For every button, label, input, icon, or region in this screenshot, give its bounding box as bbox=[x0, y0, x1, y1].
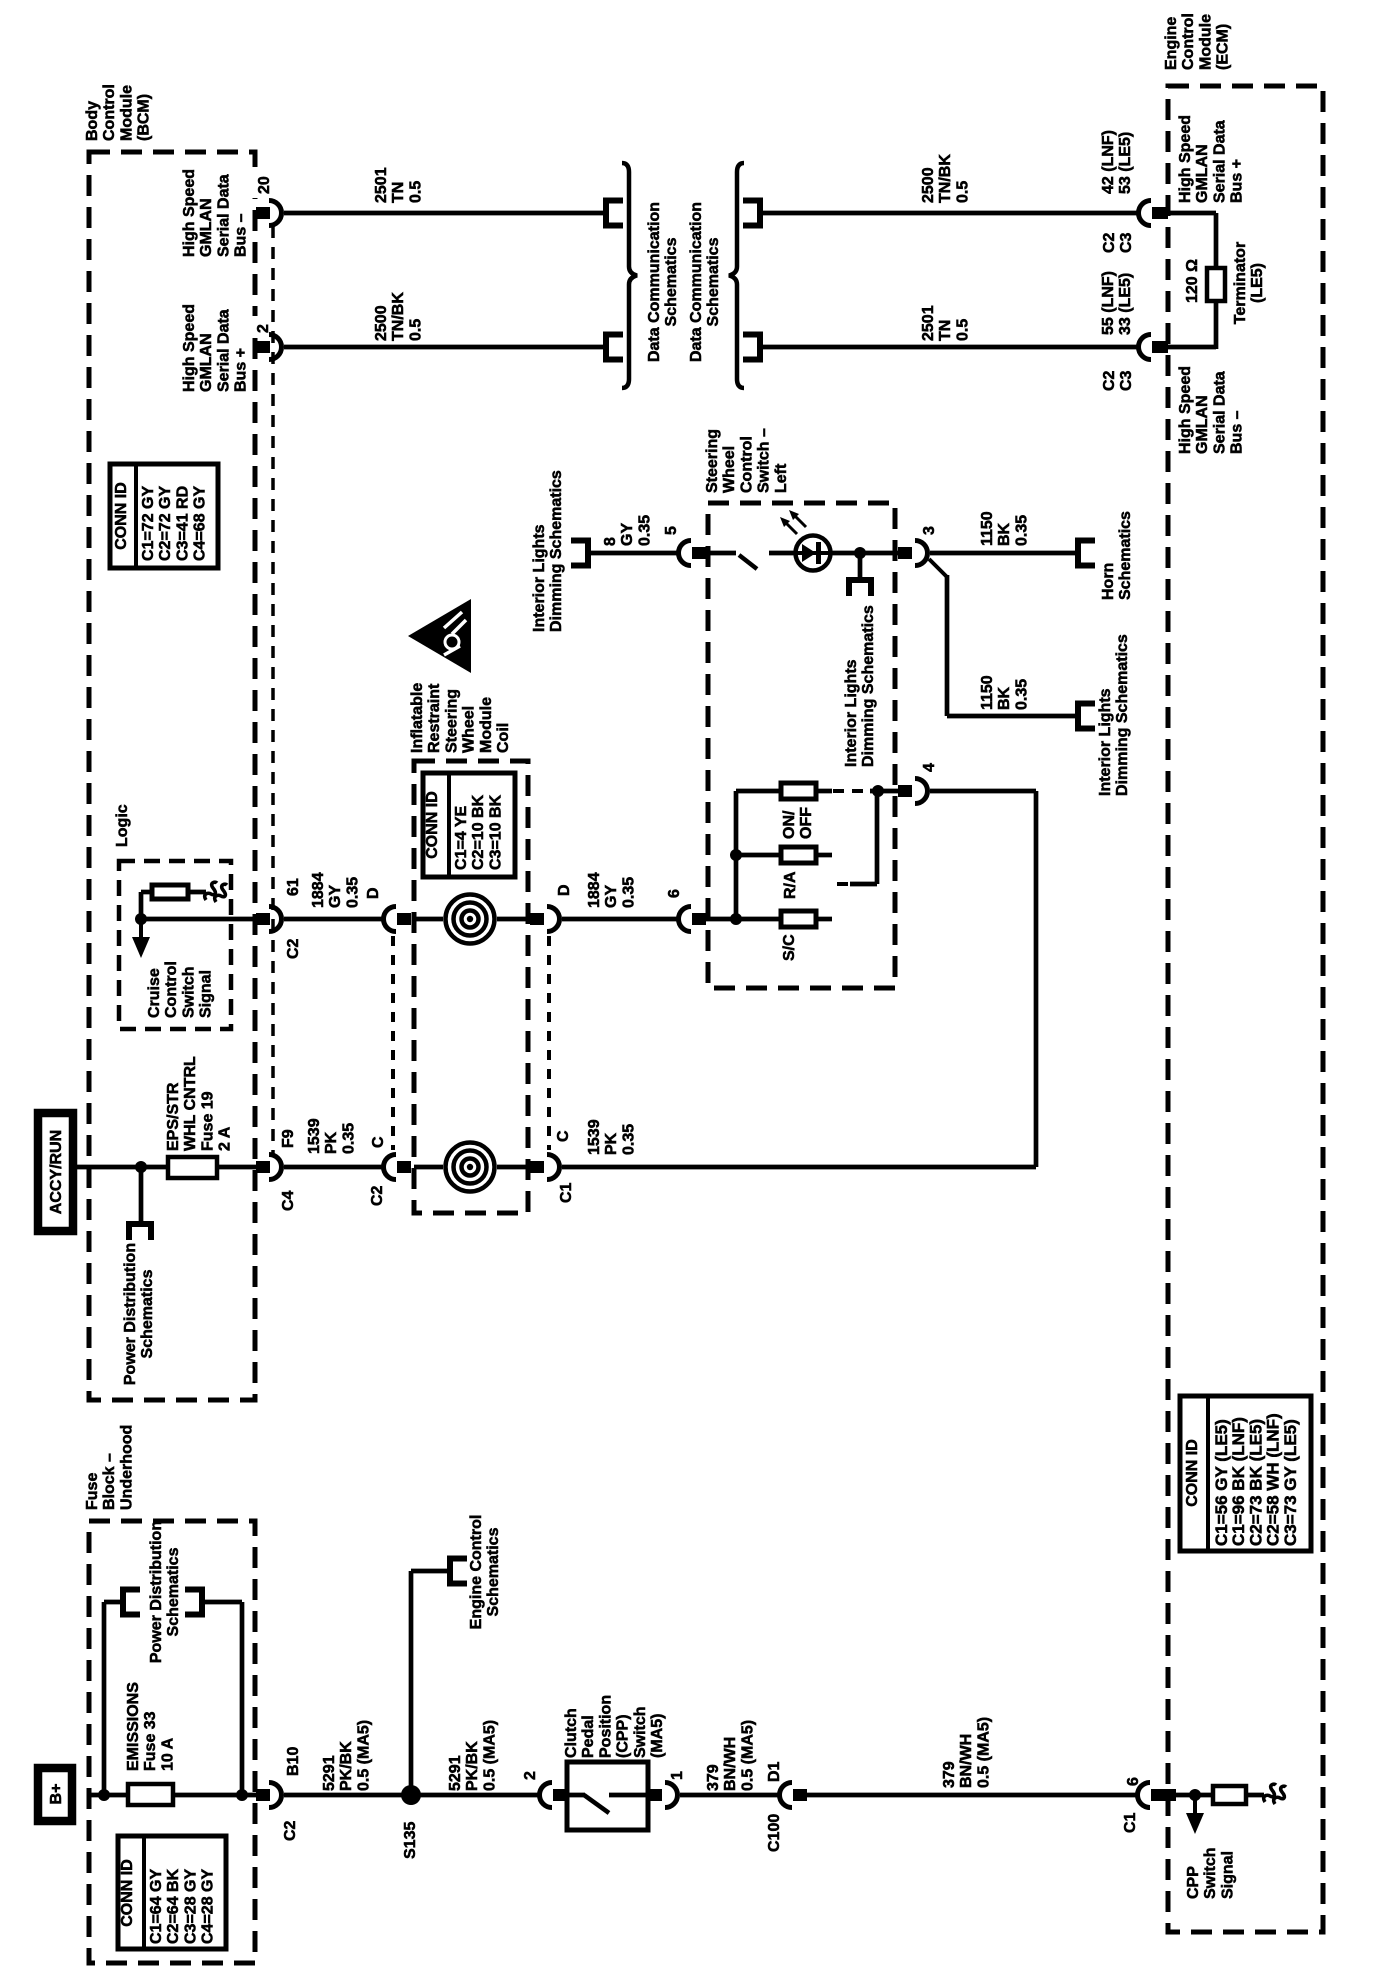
coil connector dashed line (left) bbox=[391, 936, 395, 1150]
wire from B+ into fuse block bbox=[89, 1793, 129, 1798]
Interior Lights Dimming Schematics label (in-switch) bbox=[843, 605, 877, 767]
wire 2501 TN to ECM pin 55 bbox=[760, 345, 1137, 350]
Clutch Pedal Position (CPP) Switch (MA5) box bbox=[567, 1762, 648, 1830]
wire from ACCY/RUN bbox=[73, 1165, 142, 1170]
Steering Wheel Control Switch - Left dashed box bbox=[708, 503, 895, 988]
wire label 8 GY 0.35 bbox=[602, 515, 653, 546]
svg-text:42 (LNF)53 (LE5): 42 (LNF)53 (LE5) bbox=[1100, 130, 1134, 194]
fuse block pin B10 bbox=[285, 1747, 302, 1776]
R/A row wire bbox=[736, 853, 782, 858]
Fuse Block - Underhood label bbox=[84, 1425, 135, 1510]
junction dot power distribution bbox=[135, 1161, 147, 1173]
svg-text:B10: B10 bbox=[285, 1747, 302, 1776]
svg-text:C1=64 GYC2=64 BKC3=28 GYC4=28: C1=64 GYC2=64 BKC3=28 GYC4=28 GY bbox=[148, 1868, 217, 1944]
Data Communication Schematics label 1 bbox=[646, 202, 680, 362]
svg-text:2: 2 bbox=[522, 1771, 539, 1780]
LED diode triangle and cathode bar bbox=[802, 544, 816, 562]
wire label 2501 TN 0.5 (ECM side) bbox=[920, 305, 971, 341]
Interior Lights Dimming Schematics label (pin 5 feed) bbox=[531, 470, 565, 632]
Cruise Control Switch Signal resistor (BCM logic) bbox=[152, 885, 188, 899]
off-page bracket engine control schematics bbox=[450, 1559, 467, 1584]
ECM internal bus + wire to terminator bbox=[1168, 211, 1216, 216]
switch pin 5 connector bbox=[679, 541, 692, 566]
CPP Switch Signal label bbox=[1185, 1847, 1236, 1899]
switch pin 3 bbox=[921, 526, 938, 535]
brace to Data Communication Schematics (BCM side) bbox=[622, 163, 637, 388]
wire label 2501 TN 0.5 bbox=[373, 167, 424, 203]
junction for dimming branch bbox=[854, 547, 866, 559]
svg-text:C1=56 GY (LE5)C1=96 BK (LNF)C2: C1=56 GY (LE5)C1=96 BK (LNF)C2=73 BK (LE… bbox=[1212, 1413, 1300, 1546]
wire 1150 BK to horn bbox=[930, 551, 1075, 556]
wire label 1150 BK 0.35 (horn) bbox=[979, 511, 1030, 546]
ECM pin 42/53 labels bbox=[1100, 130, 1134, 194]
wire to LED bbox=[769, 551, 796, 556]
coil connector dashed line (right) bbox=[547, 936, 551, 1150]
junction dot pin 4 node bbox=[872, 785, 884, 797]
BCM CONN ID table bbox=[110, 464, 218, 568]
svg-text:D: D bbox=[556, 884, 573, 896]
off-page bracket from interior lights dimming bbox=[571, 541, 588, 566]
wire label 379 BN/WH 0.5 (MA5) left bbox=[705, 1720, 756, 1791]
BCM pin 20 bbox=[250, 174, 272, 198]
logic resistor right wire + torn end bbox=[188, 890, 206, 895]
wire from pin 5 to illumination switch bbox=[706, 551, 736, 556]
wire to voltage (torn end) bbox=[1246, 1793, 1264, 1798]
coil terminal D (left) bbox=[365, 887, 382, 899]
coil CONN ID table bbox=[423, 773, 515, 877]
svg-text:120 Ω: 120 Ω bbox=[1184, 259, 1201, 303]
svg-text:ON/OFF: ON/OFF bbox=[781, 807, 815, 839]
svg-text:D1: D1 bbox=[766, 1761, 783, 1782]
switch pin 6 bbox=[666, 889, 683, 898]
wire label 2500 TN/BK 0.5 bbox=[373, 292, 424, 341]
B+ power feed box bbox=[38, 1768, 72, 1821]
Logic label bbox=[114, 804, 131, 847]
Fuse Block - Underhood dashed box bbox=[89, 1521, 255, 1963]
ECM pin 6 connector bbox=[1138, 1783, 1151, 1808]
120 ohm label bbox=[1184, 259, 1201, 303]
ECM internal bus - wire to terminator bbox=[1168, 345, 1216, 350]
BCM label bbox=[84, 84, 153, 141]
arrow to CPP switch signal bbox=[1193, 1795, 1197, 1815]
EMISSIONS fuse label bbox=[125, 1682, 176, 1771]
BCM connector id C2 bbox=[285, 938, 302, 959]
svg-text:D: D bbox=[365, 887, 382, 899]
svg-text:6: 6 bbox=[666, 889, 683, 898]
inline connector C100 terminal D1 bbox=[766, 1761, 783, 1782]
junction dot S/C bbox=[730, 913, 742, 925]
wire label 5291 PK/BK 0.5 (MA5) left bbox=[321, 1720, 372, 1791]
BCM pin 2 bbox=[250, 316, 270, 337]
coil spiral (bottom) bbox=[462, 1159, 479, 1176]
CPP switch label bbox=[563, 1695, 666, 1758]
fuse block B10 connector bbox=[256, 1789, 270, 1801]
illumination switch blade bbox=[739, 555, 757, 569]
off-page bracket to data comm (bus -) bbox=[606, 201, 623, 226]
svg-text:1: 1 bbox=[669, 1771, 686, 1780]
ECM High Speed GMLAN Serial Data Bus - label bbox=[1177, 366, 1246, 454]
svg-text:C1: C1 bbox=[1122, 1812, 1139, 1833]
ECM pin 6 bbox=[1125, 1777, 1142, 1786]
coil left connector (bottom) bbox=[383, 1155, 396, 1180]
svg-text:C4: C4 bbox=[280, 1190, 297, 1211]
wire 2501 TN from BCM pin 20 bbox=[284, 211, 603, 216]
svg-text:CONN ID: CONN ID bbox=[119, 1859, 136, 1927]
svg-text:ACCY/RUN: ACCY/RUN bbox=[48, 1130, 65, 1214]
left riser to power distribution bbox=[102, 1602, 107, 1795]
ACCY/RUN power feed box bbox=[38, 1113, 73, 1231]
S135 riser to engine control schematics bbox=[409, 1571, 414, 1795]
C100 label bbox=[766, 1814, 783, 1852]
ON/OFF label bbox=[781, 807, 815, 839]
wire logic to BCM pin 61 bbox=[141, 917, 256, 922]
svg-text:CONN ID: CONN ID bbox=[113, 482, 130, 550]
off-page bracket from data comm (bus -, ECM side) bbox=[743, 335, 760, 360]
Engine Control Module (ECM) dashed box bbox=[1168, 86, 1323, 1932]
S135 label bbox=[402, 1822, 419, 1859]
BCM connector id C4 bbox=[280, 1190, 297, 1211]
svg-text:S/C: S/C bbox=[781, 934, 798, 961]
wire 8 GY to switch pin 5 bbox=[588, 551, 678, 556]
wire label 2500 TN/BK 0.5 (ECM side) bbox=[920, 154, 971, 203]
wire label 1150 BK 0.35 (dimming) bbox=[979, 675, 1030, 710]
Terminator (LE5) label bbox=[1232, 242, 1266, 324]
svg-text:C1: C1 bbox=[558, 1182, 575, 1203]
off-page bracket power distribution (left) bbox=[123, 1590, 140, 1615]
svg-text:R/A: R/A bbox=[782, 871, 799, 899]
junction dot B+ left bbox=[98, 1789, 110, 1801]
ECM High Speed GMLAN Serial Data Bus + label bbox=[1177, 115, 1246, 203]
wire 2500 TN/BK from BCM pin 2 bbox=[284, 345, 603, 350]
terminator resistor 120 ohm bbox=[1207, 268, 1225, 301]
ECM pin 42 connector bbox=[1138, 200, 1151, 225]
svg-text:CONN ID: CONN ID bbox=[1184, 1439, 1201, 1507]
wire LED to pin 3 bbox=[831, 551, 898, 556]
wire to EPS fuse bbox=[141, 1165, 168, 1170]
backlight LED circle bbox=[796, 536, 831, 571]
ON/OFF row wire bbox=[736, 789, 782, 794]
Body Control Module (BCM) dashed box bbox=[89, 152, 255, 1400]
Power Distribution Schematics label (BCM) bbox=[122, 1243, 156, 1385]
steering wheel control switch label bbox=[704, 428, 790, 493]
Data Communication Schematics label 2 bbox=[688, 202, 722, 362]
ECM internal CPP wire bbox=[1176, 1793, 1213, 1798]
BCM pin 61 connector bbox=[256, 913, 270, 925]
wire label 1539 PK 0.35 (left) bbox=[306, 1118, 357, 1154]
ECM connector id C2/C3 (bottom) bbox=[1101, 370, 1135, 391]
svg-text:3: 3 bbox=[921, 526, 938, 535]
svg-text:2: 2 bbox=[255, 324, 272, 333]
ECM CONN ID table bbox=[1180, 1396, 1311, 1551]
svg-text:5: 5 bbox=[663, 526, 680, 535]
BCM pin 61 bbox=[285, 878, 302, 896]
logic resistor left wire bbox=[141, 890, 152, 895]
right riser bbox=[240, 1602, 245, 1795]
ECM connector id C2/C3 (top) bbox=[1101, 232, 1135, 253]
arrow to Cruise Control Switch Signal bbox=[139, 919, 143, 939]
R/A resistor bbox=[781, 847, 816, 863]
switch pin 3 connector bbox=[898, 547, 912, 559]
wire label 5291 PK/BK 0.5 (MA5) right bbox=[447, 1720, 498, 1791]
vertical ladder bus bbox=[734, 791, 739, 919]
EPS/STR WHL CNTRL Fuse 19 2A bbox=[168, 1157, 217, 1178]
svg-text:C: C bbox=[370, 1136, 387, 1148]
coil connector id C2 bbox=[369, 1185, 386, 1206]
SIR warning triangle bbox=[408, 599, 471, 673]
coil terminal D (right) bbox=[556, 884, 573, 896]
BCM pin F9 connector bbox=[256, 1161, 270, 1173]
svg-text:CONN ID: CONN ID bbox=[424, 791, 441, 859]
wire fuse to B10 bbox=[173, 1793, 256, 1798]
Inflatable Restraint Steering Wheel Module Coil dashed box bbox=[414, 761, 528, 1213]
svg-text:Logic: Logic bbox=[114, 804, 131, 847]
coil bottom internal wire bbox=[414, 1165, 443, 1170]
BCM connector dashed line bbox=[271, 226, 275, 1154]
brace from Data Communication Schematics (ECM side) bbox=[729, 163, 744, 388]
branch from pin 3 to dimming bbox=[929, 559, 947, 577]
EMISSIONS Fuse 33 10A bbox=[128, 1784, 173, 1805]
Horn Schematics label bbox=[1100, 511, 1134, 600]
switch pin 5 bbox=[663, 526, 680, 535]
coil terminal C (right) bbox=[555, 1130, 572, 1142]
wire pin 4 to 1539 PK rail bbox=[930, 789, 1036, 794]
svg-text:C2: C2 bbox=[369, 1185, 386, 1206]
CPP pull-up resistor bbox=[1213, 1786, 1246, 1804]
svg-text:C2C3: C2C3 bbox=[1101, 370, 1135, 391]
switch pin 4 bbox=[921, 763, 938, 772]
svg-text:F9: F9 bbox=[280, 1129, 297, 1148]
LED arrows bbox=[783, 520, 797, 534]
Engine Control Schematics label bbox=[468, 1515, 502, 1630]
wiper linkage down bbox=[875, 791, 880, 884]
off-page bracket to data comm (bus +) bbox=[606, 335, 623, 360]
svg-text:C2: C2 bbox=[285, 938, 302, 959]
wire label 379 BN/WH 0.5 (MA5) right bbox=[941, 1717, 992, 1788]
BCM pin 20 connector bbox=[256, 207, 270, 219]
svg-text:C2: C2 bbox=[282, 1820, 299, 1841]
R/A label bbox=[782, 871, 799, 899]
ECM connector id C1 bbox=[1122, 1812, 1139, 1833]
off-page bracket to interior lights dimming (in-switch) bbox=[849, 580, 871, 596]
inline connector C100 bbox=[779, 1783, 792, 1808]
wire 1884 GY BCM to coil bbox=[284, 917, 382, 922]
wire 1884 GY coil to switch pin 6 bbox=[562, 917, 678, 922]
wire 379 BN/WH to C100 bbox=[680, 1793, 778, 1798]
branch to power distribution bracket bbox=[139, 1167, 144, 1222]
fuse block connector id C2 bbox=[282, 1820, 299, 1841]
splice S135 bbox=[401, 1785, 421, 1805]
coil left connector (top) bbox=[383, 907, 396, 932]
wire 1539 PK coil to switch pin 4 drop bbox=[562, 1165, 1036, 1170]
coil connector id C1 bbox=[558, 1182, 575, 1203]
ON/OFF resistor bbox=[781, 783, 816, 799]
svg-text:C1=72 GYC2=72 GYC3=41 RDC4=68: C1=72 GYC2=72 GYC3=41 RDC4=68 GY bbox=[140, 486, 209, 561]
Cruise Control Switch Signal label bbox=[146, 961, 215, 1018]
svg-text:C100: C100 bbox=[766, 1814, 783, 1852]
coil right connector (top) bbox=[530, 913, 544, 925]
svg-text:B+: B+ bbox=[48, 1784, 65, 1805]
coil top internal wire bbox=[414, 917, 443, 922]
wire label 1884 GY 0.35 (right) bbox=[586, 872, 637, 908]
off-page bracket from data comm (bus +, ECM side) bbox=[743, 201, 760, 226]
junction dot logic bbox=[135, 913, 147, 925]
wire label 1539 PK 0.35 (right) bbox=[586, 1119, 637, 1155]
ECM label bbox=[1163, 13, 1232, 70]
coil module label bbox=[409, 683, 512, 753]
branch down to dimming bracket bbox=[858, 553, 863, 578]
CPP switch pin 2 connector bbox=[540, 1783, 553, 1808]
ECM pin 55/33 labels bbox=[1100, 271, 1134, 335]
ECM pin 55 connector bbox=[1138, 335, 1151, 360]
off-page bracket to interior lights dimming schematics bbox=[1078, 704, 1095, 729]
wire fuse to BCM pin F9 bbox=[217, 1165, 256, 1170]
junction dot CPP signal bbox=[1189, 1789, 1201, 1801]
Power Distribution Schematics label (fuse block) bbox=[148, 1521, 182, 1663]
BCM High Speed GMLAN Serial Data Bus - label bbox=[181, 169, 250, 257]
CPP switch contacts bbox=[567, 1793, 585, 1798]
svg-text:S135: S135 bbox=[402, 1822, 419, 1859]
CPP switch pin 1 bbox=[669, 1771, 686, 1780]
switch pin 6 wire into S/C resistor bbox=[706, 917, 782, 922]
wire 5291 PK/BK to S135 bbox=[284, 1793, 541, 1798]
S/C resistor bbox=[781, 911, 816, 927]
junction dot R/A bbox=[730, 849, 742, 861]
BCM pin F9 bbox=[280, 1129, 297, 1148]
coil terminal C (left) bbox=[370, 1136, 387, 1148]
junction dot B+ right bbox=[236, 1789, 248, 1801]
wire 1539 PK BCM to coil bbox=[284, 1165, 382, 1170]
svg-text:C2C3: C2C3 bbox=[1101, 232, 1135, 253]
switch pin 4 connector bbox=[898, 785, 912, 797]
fuse block CONN ID table bbox=[118, 1836, 226, 1949]
svg-text:C: C bbox=[555, 1130, 572, 1142]
Interior Lights Dimming Schematics label (pin 3) bbox=[1097, 634, 1131, 796]
BCM High Speed GMLAN Serial Data Bus + label bbox=[181, 304, 250, 392]
wire label 1884 GY 0.35 (left) bbox=[310, 872, 361, 908]
S/C label bbox=[781, 934, 798, 961]
BCM pin 2 connector bbox=[256, 341, 270, 353]
Logic dashed box inside BCM bbox=[119, 861, 231, 1029]
off-page bracket to power distribution schematics (BCM) bbox=[129, 1224, 151, 1240]
CPP switch pin 1 connector bbox=[648, 1789, 662, 1801]
coil right connector (bottom) bbox=[530, 1161, 544, 1173]
svg-text:61: 61 bbox=[285, 878, 302, 896]
wire 2500 TN/BK to ECM pin 42 bbox=[760, 211, 1137, 216]
dash-dot link ON/OFF to pin 4 bbox=[833, 789, 872, 793]
off-page bracket to horn schematics bbox=[1078, 541, 1095, 566]
svg-text:4: 4 bbox=[921, 763, 938, 772]
svg-text:Engine ControlSchematics: Engine ControlSchematics bbox=[468, 1515, 502, 1630]
EPS fuse label bbox=[165, 1056, 234, 1151]
switch pin 6 connector bbox=[679, 907, 692, 932]
CPP switch pin 2 bbox=[522, 1771, 539, 1780]
wire 379 BN/WH to ECM pin 6 bbox=[807, 1793, 1137, 1798]
svg-text:55 (LNF)33 (LE5): 55 (LNF)33 (LE5) bbox=[1100, 271, 1134, 335]
off-page bracket power distribution (right) bbox=[185, 1590, 202, 1615]
svg-text:20: 20 bbox=[256, 176, 273, 194]
coil spiral (top) bbox=[462, 911, 479, 928]
